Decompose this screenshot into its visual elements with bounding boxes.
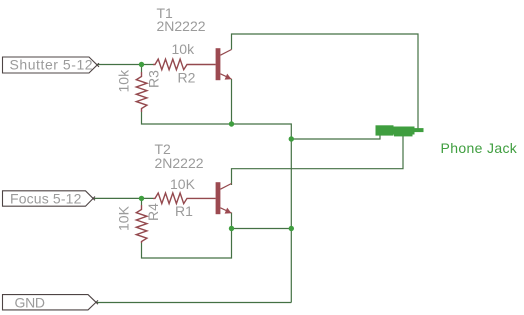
svg-text:R2: R2	[178, 70, 196, 86]
wire: R4 top connection	[141, 198, 143, 205]
svg-text:10K: 10K	[115, 205, 131, 231]
node: junction at Focus/R1/R4	[139, 196, 144, 201]
wire: Shutter net from flag tip to R2	[97, 64, 154, 66]
node: junction GND bus	[289, 226, 294, 231]
wire: T2 collector up then across to jack ring pin	[232, 136, 404, 185]
svg-text:Phone Jack: Phone Jack	[441, 140, 518, 156]
flag: Shutter 5-12	[3, 57, 100, 73]
svg-text:R3: R3	[146, 70, 162, 88]
resistor R3 10k vertical	[136, 72, 147, 112]
phone jack symbol	[376, 125, 424, 136]
wire: GND run from flag tip to vertical bus	[97, 302, 292, 304]
svg-text:Focus 5-12: Focus 5-12	[10, 190, 82, 206]
svg-text:10k: 10k	[172, 41, 196, 57]
flag: Focus 5-12	[3, 191, 96, 206]
svg-text:10k: 10k	[115, 69, 131, 93]
flag: GND	[3, 295, 99, 310]
node: junction T1 emitter / R3 row	[229, 121, 234, 126]
transistor T1 2N2222	[216, 48, 232, 80]
wire: R3 top connection	[141, 65, 143, 73]
wire: Focus net from flag tip to R1	[94, 197, 153, 199]
svg-text:Shutter 5-12: Shutter 5-12	[10, 57, 94, 73]
resistor R1 10K horizontal	[153, 193, 216, 204]
wire: vertical bus x=291 from sleeve node down to GND corner	[290, 139, 292, 303]
wire: T1 collector up and across top to jack tip	[232, 34, 419, 129]
resistor R2 10k horizontal	[153, 59, 216, 70]
svg-text:R1: R1	[175, 203, 193, 219]
svg-text:GND: GND	[15, 294, 45, 310]
svg-text:R4: R4	[145, 203, 161, 221]
wire: T1 emitter down to node row y=124	[231, 79, 233, 124]
node: junction sleeve row	[289, 136, 294, 141]
svg-text:2N2222: 2N2222	[155, 155, 204, 171]
transistor T2 2N2222	[216, 182, 232, 214]
wire: sleeve node to phone jack sleeve stub	[291, 135, 380, 139]
wire: T2 emitter down to node	[231, 213, 233, 229]
wire: R4 bottom to T2 emitter node	[142, 229, 232, 259]
resistor R4 10K vertical	[136, 205, 147, 243]
wire: T2 emitter node across to vertical bus	[232, 228, 292, 230]
svg-text:10K: 10K	[170, 176, 196, 192]
node: junction at Shutter/R2/R3	[139, 62, 144, 67]
node: junction T2 emitter / R4 row	[229, 226, 234, 231]
wire: R3 bottom row across to x=291 then down to sleeve node	[142, 112, 292, 139]
svg-text:2N2222: 2N2222	[157, 18, 206, 34]
